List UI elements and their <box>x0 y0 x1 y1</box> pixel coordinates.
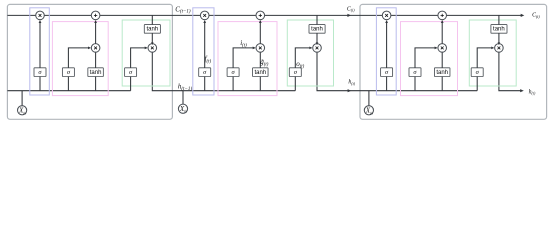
output tanh box cell3 <box>491 25 507 34</box>
svg-text:C(t): C(t) <box>532 13 540 19</box>
wire output sigma to output multiply cell1 <box>131 48 147 68</box>
wire x input stem cell3 <box>368 91 370 106</box>
input x circle cell3 <box>364 106 373 115</box>
wire C to output tanh cell3 <box>498 15 500 24</box>
arrowhead into add cell3 <box>441 20 444 23</box>
wire candidate tanh to multiply cell1 <box>95 52 97 68</box>
forget-gate blue region cell1 <box>30 8 50 95</box>
arrowhead into forget multiply cell1 <box>39 20 42 23</box>
svg-text:tanh: tanh <box>254 70 266 76</box>
wire C to output tanh cell1 <box>151 15 153 24</box>
candidate multiply circle cell2 <box>256 44 265 53</box>
wire bus to output sigma cell2 <box>294 77 296 91</box>
forget sigma gate cell1 <box>34 68 46 77</box>
input sigma gate cell3 <box>409 68 421 77</box>
forget multiply circle on C cell1 <box>36 11 45 20</box>
wire output tanh to output multiply cell1 <box>151 33 153 43</box>
wire bus to forget sigma cell1 <box>39 77 41 91</box>
output sigma gate cell1 <box>125 68 137 77</box>
arrowhead into output multiply cell1 <box>145 47 148 50</box>
output-gate green region cell1 <box>122 20 170 86</box>
wire h output cell1 to cell2 bus <box>152 52 295 90</box>
add circle on C cell1 <box>91 11 100 20</box>
wire bus to input sigma cell3 <box>414 77 416 91</box>
input x circle cell2 <box>178 104 187 113</box>
output-gate green region cell3 <box>469 20 516 86</box>
wire candidate multiply to add cell2 <box>259 21 261 44</box>
wire bus to candidate tanh cell3 <box>441 77 443 91</box>
input sigma gate cell1 <box>62 68 74 77</box>
wire h bus cell1 <box>7 90 130 92</box>
arrowhead into add cell1 <box>94 20 97 23</box>
wire bus to forget sigma cell2 <box>204 77 206 91</box>
forget sigma gate cell3 <box>381 68 393 77</box>
arrowhead into output multiply from tanh cell2 <box>316 42 319 45</box>
wire candidate tanh to multiply cell3 <box>441 52 443 68</box>
wire h output cell2 to cell3 bus <box>317 52 477 90</box>
svg-text:tanh: tanh <box>146 27 158 33</box>
wire h output cell3 <box>499 52 522 90</box>
arrowhead into output multiply from tanh cell3 <box>498 42 501 45</box>
arrowhead into candidate multiply cell1 <box>88 47 91 50</box>
wire output sigma to output multiply cell3 <box>477 48 493 68</box>
wire bus to output sigma cell3 <box>476 77 478 91</box>
arrowhead into output multiply cell2 <box>309 47 312 50</box>
svg-text:tanh: tanh <box>436 70 448 76</box>
svg-text:h(t): h(t) <box>529 89 536 95</box>
arrowhead into output multiply from tanh cell1 <box>151 42 154 45</box>
arrowhead h(t) between cell2 and cell3 <box>348 89 352 92</box>
candidate tanh gate cell2 <box>253 68 268 77</box>
output sigma gate cell2 <box>289 68 301 77</box>
svg-text:tanh: tanh <box>493 27 505 33</box>
arrowhead C(t) between cell2 and cell3 <box>347 14 351 17</box>
add circle on C cell2 <box>256 11 265 20</box>
wire cell-state C line <box>7 14 521 16</box>
wire input sigma to candidate multiply cell3 <box>415 48 437 68</box>
arrowhead into forget multiply cell3 <box>385 20 388 23</box>
forget sigma gate cell2 <box>199 68 211 77</box>
output tanh box cell2 <box>309 25 325 34</box>
candidate multiply circle cell3 <box>438 44 447 53</box>
LSTM cell 1 outer box <box>7 4 172 119</box>
arrowhead into add cell2 <box>259 20 262 23</box>
output multiply circle cell2 <box>313 44 322 53</box>
input-gate pink region cell1 <box>52 22 108 96</box>
add circle on C cell3 <box>438 11 447 20</box>
wire output sigma to output multiply cell2 <box>295 48 311 68</box>
candidate tanh gate cell3 <box>434 68 450 77</box>
candidate tanh gate cell1 <box>88 68 104 77</box>
svg-text:tanh: tanh <box>90 70 102 76</box>
wire bus to input sigma cell1 <box>67 77 69 91</box>
forget multiply circle on C cell2 <box>200 11 209 20</box>
wire output tanh to output multiply cell3 <box>498 33 500 43</box>
wire forget sigma to multiply cell3 <box>386 21 388 68</box>
wire x input stem cell1 <box>21 91 23 106</box>
output tanh box cell1 <box>144 25 160 34</box>
input sigma gate cell2 <box>227 68 239 77</box>
svg-text:tanh: tanh <box>311 27 323 33</box>
output multiply circle cell1 <box>148 44 157 53</box>
arrowhead into candidate multiply cell2 <box>253 47 256 50</box>
output multiply circle cell3 <box>495 44 504 53</box>
arrowhead into forget multiply cell2 <box>203 20 206 23</box>
wire bus to candidate tanh cell2 <box>259 77 261 91</box>
candidate multiply circle cell1 <box>91 44 100 53</box>
input-gate pink region cell2 <box>218 22 277 96</box>
wire forget sigma to multiply cell2 <box>204 21 206 68</box>
wire x input stem cell2 <box>182 91 184 104</box>
output sigma gate cell3 <box>471 68 483 77</box>
wire C to output tanh cell2 <box>316 15 318 24</box>
forget-gate blue region cell2 <box>193 8 214 95</box>
wire bus to forget sigma cell3 <box>386 77 388 91</box>
arrowhead C(t) output right <box>521 14 525 17</box>
wire candidate multiply to add cell3 <box>441 21 443 44</box>
arrowhead into candidate multiply cell3 <box>435 47 438 50</box>
wire bus to input sigma cell2 <box>232 77 234 91</box>
arrowhead h(t) output right <box>520 89 524 92</box>
wire bus to candidate tanh cell1 <box>95 77 97 91</box>
forget multiply circle on C cell3 <box>382 11 391 20</box>
wire candidate tanh to multiply cell2 <box>259 52 261 68</box>
input-gate pink region cell3 <box>401 22 458 96</box>
svg-text:C(t): C(t) <box>347 6 355 12</box>
input x circle cell1 <box>18 106 27 115</box>
wire forget sigma to multiply cell1 <box>39 21 41 68</box>
forget-gate blue region cell3 <box>376 8 396 95</box>
wire input sigma to candidate multiply cell1 <box>68 48 90 68</box>
wire bus to output sigma cell1 <box>130 77 132 91</box>
svg-text:h(t): h(t) <box>348 79 355 85</box>
wire input sigma to candidate multiply cell2 <box>233 48 255 68</box>
LSTM cell 3 outer box <box>360 4 547 119</box>
arrowhead into output multiply cell3 <box>491 47 494 50</box>
output-gate green region cell2 <box>287 20 333 86</box>
wire candidate multiply to add cell1 <box>95 21 97 44</box>
wire output tanh to output multiply cell2 <box>316 33 318 43</box>
